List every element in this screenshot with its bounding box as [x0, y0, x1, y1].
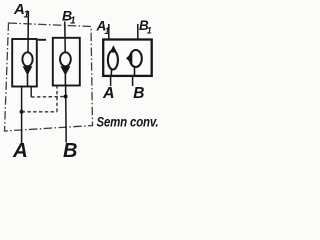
junction dot on line A	[20, 110, 24, 114]
wire: main line B down to port B	[65, 86, 68, 143]
junction dot on line B	[64, 95, 68, 99]
label B (symbol bottom)	[133, 85, 144, 102]
wire: check valve 2 stub below	[134, 67, 136, 76]
housing frame (dash-dot box)	[5, 23, 93, 131]
svg-text:Semn conv.: Semn conv.	[97, 115, 159, 130]
label A1 (left assembly top)	[13, 1, 30, 21]
pilot line 2 (valve B pilot from line A): dashed horizontal	[22, 111, 57, 113]
wire: port B stub below symbol	[132, 76, 134, 87]
symbol body (rectangle)	[103, 40, 152, 76]
wire: valve B seat stub to body bottom	[64, 74, 66, 86]
wire: tick A1 to symbol body	[108, 24, 110, 40]
valve A poppet ball (circle)	[22, 52, 32, 66]
label B1 (left assembly top)	[62, 8, 76, 27]
label A (left assembly bottom port)	[12, 139, 28, 162]
valve A body (square)	[12, 39, 37, 87]
svg-text:1: 1	[147, 26, 152, 36]
wire: valve A seat stub to body bottom	[27, 74, 29, 87]
wire: port A1 line into valve A	[27, 11, 29, 53]
wire: tick B1 to symbol body	[137, 24, 139, 40]
valve B seat (filled wedge)	[60, 66, 70, 75]
svg-text:B: B	[63, 140, 77, 162]
wire: port B1 line into valve B	[64, 22, 66, 53]
pilot line 1 (valve A pilot from line B): vertical stub	[30, 87, 32, 98]
pilot line 1 dashed horizontal	[31, 96, 65, 99]
wire: main line A down to port A	[21, 87, 23, 145]
valve B body (square)	[53, 38, 80, 86]
check valve 2: seat wedge on left	[126, 52, 132, 64]
check valve 1: seat wedge on top	[110, 45, 117, 52]
pilot line 2 dashed vertical up into valve B	[56, 87, 58, 112]
label A1 (symbol top left)	[96, 19, 110, 37]
label A (symbol bottom)	[102, 85, 115, 102]
caption: Semn conv.	[97, 115, 159, 130]
check valve 1: ball	[108, 51, 118, 70]
valve A top edge overshoot	[38, 39, 46, 41]
svg-text:1: 1	[70, 16, 76, 27]
svg-text:A: A	[102, 85, 115, 102]
wire: check valve 1 stub below	[110, 69, 112, 76]
svg-text:B: B	[133, 85, 144, 102]
label B (left assembly bottom port)	[63, 140, 77, 162]
valve A seat (filled wedge)	[23, 66, 33, 75]
check valve 2: ball	[130, 50, 142, 67]
svg-text:A: A	[12, 139, 28, 162]
valve B poppet ball (circle)	[60, 52, 71, 66]
wire: port A stub below symbol	[110, 76, 112, 87]
label B1 (symbol top right)	[139, 18, 152, 36]
